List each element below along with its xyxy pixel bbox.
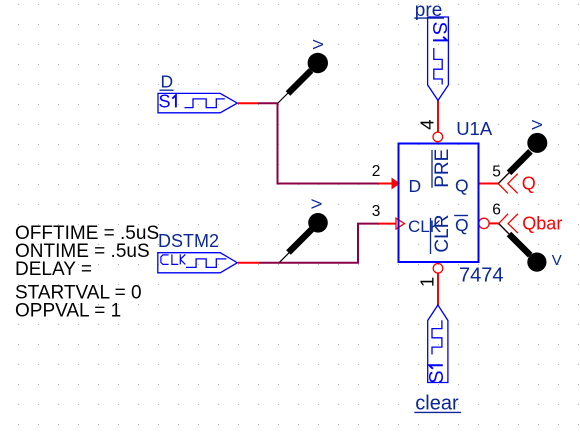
svg-text:Q: Q bbox=[455, 215, 469, 235]
probe marker on Q wire bbox=[498, 133, 547, 184]
svg-text:4: 4 bbox=[417, 120, 438, 130]
svg-text:CLR: CLR bbox=[432, 215, 453, 253]
svg-text:S: S bbox=[426, 370, 448, 383]
pin 1 bubble bbox=[433, 264, 443, 274]
svg-text:V: V bbox=[529, 120, 546, 130]
svg-text:PRE: PRE bbox=[432, 149, 453, 188]
stimulus DSTM1 body bbox=[158, 93, 237, 112]
svg-text:Q: Q bbox=[455, 176, 469, 196]
svg-text:2: 2 bbox=[372, 163, 381, 180]
pin 2 arrow (filled) bbox=[392, 178, 401, 190]
svg-text:DELAY =: DELAY = bbox=[15, 259, 92, 280]
svg-text:S: S bbox=[428, 22, 450, 35]
pin 5 wire bbox=[479, 183, 499, 185]
stimulus DSTM1 waveform bbox=[185, 99, 225, 108]
Qbar overline bbox=[454, 215, 468, 217]
svg-text:V: V bbox=[309, 199, 326, 209]
svg-text:5: 5 bbox=[492, 163, 501, 180]
probe marker on D wire bbox=[278, 53, 328, 104]
svg-text:S: S bbox=[159, 92, 171, 112]
stimulus DSTM2 label CLK bbox=[161, 254, 185, 264]
pin 4 bubble bbox=[433, 132, 443, 142]
pin 6 bubble bbox=[479, 218, 489, 228]
svg-text:7474: 7474 bbox=[459, 265, 504, 287]
stimulus DSTM1 pin wire bbox=[238, 102, 258, 104]
probe marker on Qbar wire bbox=[499, 224, 547, 272]
stimulus DSTM2 waveform bbox=[186, 259, 226, 268]
svg-text:Q: Q bbox=[522, 173, 536, 193]
wire net CLK (maroon) bbox=[259, 224, 379, 263]
svg-text:Qbar: Qbar bbox=[522, 214, 562, 234]
pin 2 wire bbox=[379, 183, 393, 185]
net label chevrons Q bbox=[498, 174, 517, 194]
svg-text:D: D bbox=[161, 72, 174, 92]
probe marker on CLK wire bbox=[279, 213, 328, 263]
pin 3 wire bbox=[379, 223, 397, 225]
stimulus DSTM4 waveform bbox=[432, 320, 442, 354]
svg-text:1: 1 bbox=[416, 277, 437, 287]
svg-text:clear: clear bbox=[415, 392, 459, 414]
stimulus DSTM4 body (clear, pointing up) bbox=[428, 305, 448, 383]
wire net D (maroon) bbox=[258, 103, 379, 183]
net label chevrons Qbar bbox=[499, 214, 518, 234]
svg-text:D: D bbox=[409, 176, 422, 196]
pin 3 arrow (open) bbox=[396, 218, 404, 229]
stimulus DSTM2 pin wire bbox=[238, 262, 259, 264]
stimulus DSTM3 body (pre, pointing down) bbox=[428, 17, 449, 100]
stimulus DSTM2 body bbox=[158, 253, 238, 273]
svg-text:6: 6 bbox=[492, 202, 501, 219]
CLR overline bbox=[430, 218, 432, 254]
pin 4 wire bbox=[437, 100, 439, 132]
pin 6 wire bbox=[489, 222, 499, 224]
svg-text:OPPVAL = 1: OPPVAL = 1 bbox=[15, 301, 121, 322]
svg-text:3: 3 bbox=[372, 203, 381, 220]
svg-text:V: V bbox=[310, 39, 327, 49]
stimulus DSTM3 waveform bbox=[434, 48, 442, 85]
svg-text:U1A: U1A bbox=[456, 118, 493, 139]
svg-text:V: V bbox=[552, 252, 562, 269]
svg-text:DSTM2: DSTM2 bbox=[158, 231, 219, 251]
pin 1 wire bbox=[437, 273, 439, 305]
op U1A 7474 box bbox=[399, 144, 479, 263]
PRE overline bbox=[431, 150, 433, 188]
